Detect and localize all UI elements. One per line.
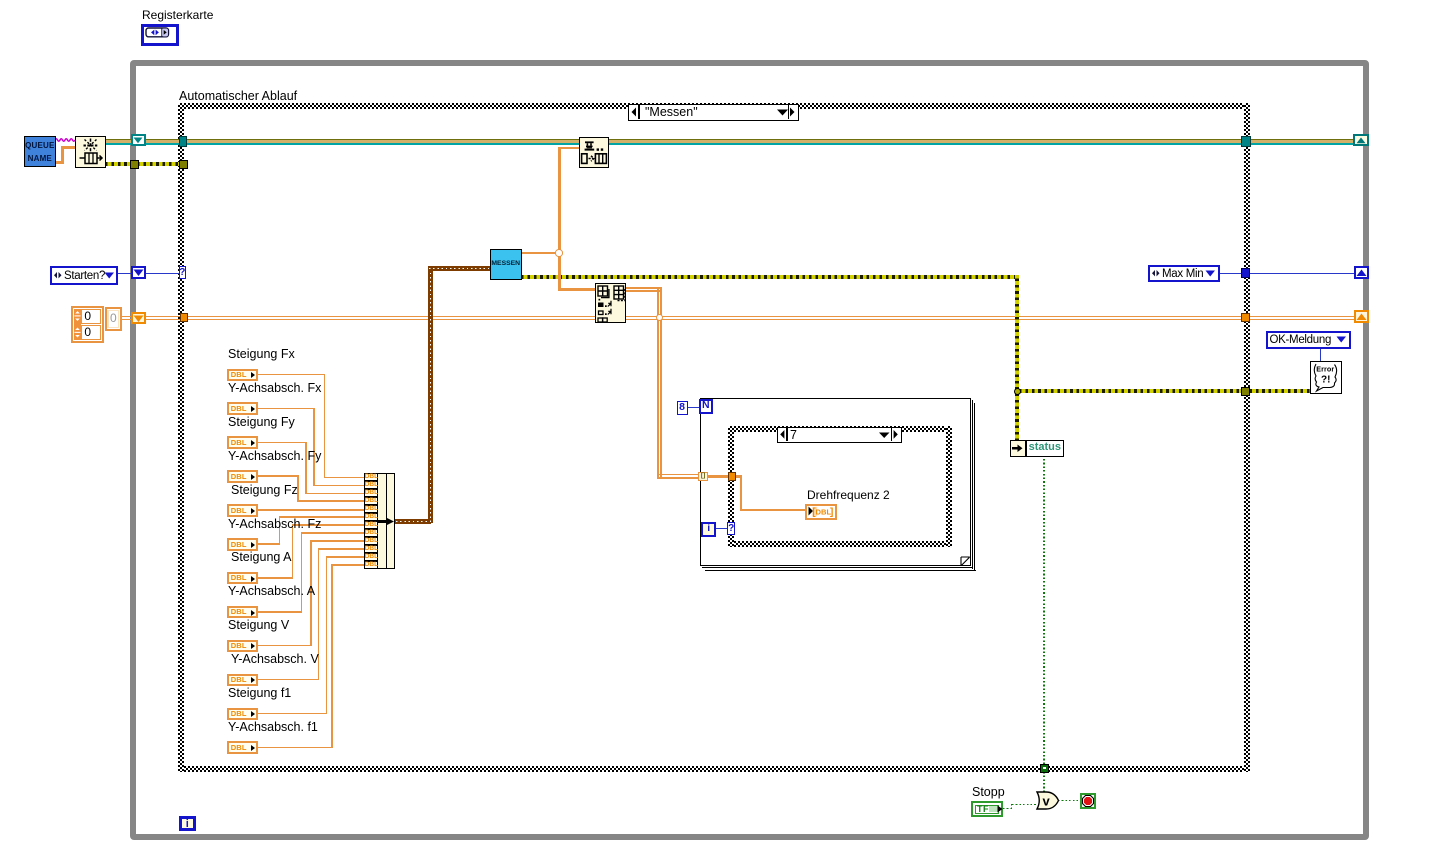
wire cluster brown: horizontal to MESSEN [428, 266, 490, 271]
svg-text:]: ] [830, 507, 833, 517]
constant DBL 10 (Y-Achsabsch. V) [227, 674, 259, 687]
case structure right border [1244, 103, 1250, 772]
wire enum Starten? to case selector (blue) [118, 273, 180, 274]
wire DBL 4 [258, 475, 299, 477]
svg-text:Error: Error [1316, 364, 1334, 373]
bundle input row 5 DBL [364, 505, 378, 513]
bundle middle divider [386, 473, 387, 569]
node Bundle [364, 473, 395, 569]
wire DBL 2 [258, 408, 315, 410]
bundle input row 10 DBL [364, 545, 378, 553]
constant DBL 4 (Y-Achsabsch. Fy) [227, 470, 259, 483]
junction orange on inner case border [728, 472, 737, 481]
case structure bottom border [178, 766, 1250, 772]
shift register right blue (up arrow) [1354, 266, 1369, 279]
bundle output arrow [378, 517, 395, 526]
wire orange inside for loop to inner case [708, 475, 729, 478]
bundle input row 12 DBL [364, 561, 378, 569]
bundle input row 8 DBL [364, 529, 378, 537]
wire blue OK-Meldung to Error dialog [1320, 349, 1321, 362]
shift register left blue (down arrow) [131, 266, 147, 279]
constant 8 [677, 401, 688, 415]
label Steigung Fx [228, 348, 295, 361]
junction dot orange at (659.6,317.7) [656, 314, 663, 321]
wire orange inner case down and right [736, 475, 742, 478]
constant string MESSEN [490, 249, 522, 280]
constant DBL 2 (Y-Achsabsch. Fx) [227, 402, 259, 415]
tunnel green on case bottom border [1040, 764, 1048, 773]
wire DBL 1 [258, 374, 325, 376]
array constant element display (dimmed) [105, 307, 122, 331]
label Steigung A [231, 551, 291, 564]
junction orange on case border (right) [1241, 313, 1250, 322]
ring constant OK-Meldung [1266, 331, 1352, 349]
constant DBL 3 (Steigung Fy) [227, 436, 259, 449]
wire orange branch to MESSEN right [521, 252, 559, 255]
iteration terminal i (while loop) [179, 816, 196, 831]
case structure left border [178, 103, 184, 772]
for loop shadow frames [972, 400, 973, 569]
while loop border [130, 60, 1369, 840]
case structure top border [178, 103, 1250, 109]
wire 8 to N [688, 407, 699, 408]
wire error cluster MESSEN to vertical (dashed olive) [521, 275, 1019, 279]
wire DBL 12 [258, 747, 333, 749]
label Automatischer Ablauf [179, 90, 297, 103]
constant DBL 1 (Steigung Fx) [227, 369, 259, 382]
inner case structure borders [728, 426, 952, 432]
label Y-Achsabsch. Fz [228, 518, 321, 531]
svg-text:v: v [1043, 793, 1051, 808]
constant DBL 5 (Steigung Fz) [227, 504, 259, 517]
wire DBL 9 [258, 645, 312, 647]
label Y-Achsabsch. Fx [228, 382, 321, 395]
label Y-Achsabsch. A [228, 585, 315, 598]
array constant 0 0 : outer frame [71, 306, 104, 343]
wire DBL 6 [258, 543, 280, 545]
enum constant Starten? [50, 266, 118, 285]
label Registerkarte [142, 9, 213, 22]
wire green boolean vertical status to tunnel [1043, 457, 1045, 764]
node Enqueue/Sum icon [579, 137, 610, 168]
for loop main frame [700, 398, 971, 567]
wire array vertical x=659 (double) [657, 287, 659, 477]
junction error wire [1014, 388, 1021, 395]
label Drehfrequenz 2 [807, 489, 890, 502]
constant QUEUE NAME [24, 136, 56, 167]
junction error cluster on case border (left) [179, 160, 189, 170]
case selector terminal ? [179, 266, 187, 279]
wire orange QUEUE NAME to Obtain Queue [56, 161, 64, 164]
wire cluster brown: vertical [428, 266, 433, 523]
wire i to inner case selector [716, 528, 727, 529]
wire array out of unbundle icon (double) [626, 287, 660, 289]
inner case selector label 7 [777, 427, 902, 443]
bundle input row 2 DBL [364, 481, 378, 489]
bundle input row 9 DBL [364, 537, 378, 545]
wire green boolean OR gate to stop terminal [1058, 800, 1080, 802]
wire DBL 8 [258, 611, 302, 613]
constant DBL 7 (Steigung A) [227, 572, 259, 585]
label Steigung Fy [228, 416, 295, 429]
shift register left orange (down arrow) [131, 312, 147, 325]
enum constant Max Min [1148, 265, 1221, 283]
label Steigung Fz [231, 484, 298, 497]
tunnel error cluster on loop border (left) [130, 160, 140, 170]
wire DBL 11 [258, 713, 327, 715]
junction error cluster on case border (right) [1241, 387, 1251, 397]
shift register right teal (up arrow) [1353, 134, 1369, 146]
constant DBL 8 (Y-Achsabsch. A) [227, 606, 259, 619]
wire string pink wavy QUEUE NAME to Obtain Queue [55, 136, 76, 144]
tunnel auto-index [] [698, 472, 707, 481]
iteration terminal i (inner for loop) [701, 522, 716, 537]
loop condition stop terminal [1080, 793, 1096, 809]
wire DBL 3 [258, 442, 307, 444]
wire error cluster branch to Error dialog (dashed olive) [1019, 389, 1310, 393]
shift register right orange (up arrow) [1354, 310, 1370, 324]
node unbundle status [1010, 440, 1026, 457]
node unbundle/index icon [595, 283, 626, 324]
wire DBL 7 [258, 577, 293, 579]
shift register left teal (down arrow) [131, 134, 147, 146]
label Y-Achsabsch. Fy [228, 450, 321, 463]
node Obtain Queue icon [75, 136, 106, 168]
svg-text:?!: ?! [1321, 374, 1330, 385]
constant DBL 12 (Y-Achsabsch. f1) [227, 741, 259, 754]
bundle input row 3 DBL [364, 489, 378, 497]
constant DBL 6 (Y-Achsabsch. Fz) [227, 538, 259, 551]
label Steigung f1 [228, 687, 291, 700]
wire DBL 5 straight [258, 509, 364, 511]
array constant index column [74, 309, 81, 339]
bundle input row 7 DBL [364, 521, 378, 529]
junction teal on case border (left) [179, 136, 188, 147]
wire green boolean tunnel to OR gate [1043, 772, 1045, 792]
bundle input row 1 DBL [364, 473, 378, 481]
bundle input row 6 DBL [364, 513, 378, 521]
junction blue on case border (right) [1241, 268, 1250, 278]
node Or gate [1035, 791, 1061, 810]
indicator DBL Drehfrequenz 2 [805, 504, 837, 520]
constant DBL 11 (Steigung f1) [227, 708, 259, 721]
label Y-Achsabsch. f1 [228, 721, 318, 734]
control terminal Stopp TF [971, 801, 1003, 817]
count terminal N [699, 399, 714, 414]
wire orange from Sum icon (left then down) [558, 147, 579, 150]
junction orange on case border (left) [180, 313, 189, 322]
wire queue refnum (horizontal, full width) [105, 139, 1357, 141]
junction dot orange at (559,253) [555, 249, 562, 256]
wire error cluster vertical x=1017 [1015, 275, 1019, 441]
bundle input row 11 DBL [364, 553, 378, 561]
inner case selector terminal ? [727, 522, 735, 534]
label Y-Achsabsch. V [231, 653, 319, 666]
wire green boolean TF to OR gate [1003, 808, 1012, 810]
wire cluster brown: bundle out horizontal [395, 519, 431, 524]
constant DBL 9 (Steigung V) [227, 640, 259, 653]
junction teal on case border (right) [1241, 136, 1251, 147]
bundle input row 4 DBL [364, 497, 378, 505]
wire DBL 10 [258, 679, 319, 681]
wire numeric array (long horizontal orange double) [122, 316, 1356, 318]
node Error dialog icon [1310, 361, 1342, 395]
tab control terminal Registerkarte [141, 24, 179, 46]
case selector label "Messen" [628, 104, 799, 121]
wire error cluster (left segment icon to case border) [105, 162, 185, 166]
label Stopp [972, 786, 1005, 799]
label Steigung V [228, 619, 289, 632]
wire Max Min enum to right shift register (blue) [1220, 273, 1356, 274]
for loop page curl [961, 557, 969, 565]
wire array horizontal to for loop (double) [657, 474, 699, 476]
wire orange into unbundle icon [558, 288, 596, 291]
array constant element cells [81, 309, 101, 323]
